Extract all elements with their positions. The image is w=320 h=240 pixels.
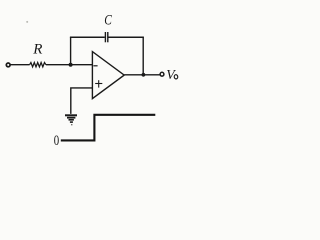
node output junction dot [142, 73, 146, 77]
resistor R1 [30, 63, 46, 67]
wire feedback right vertical [142, 37, 144, 75]
op-amp U1 [92, 52, 124, 99]
op-amp plus sign [95, 83, 102, 85]
wire noninverting input [71, 88, 93, 114]
svg-text:0: 0 [54, 132, 59, 148]
capacitor C [104, 32, 106, 42]
wire feedback top right [109, 36, 144, 38]
input terminal [6, 63, 10, 67]
svg-text:C: C [104, 13, 112, 29]
ground [65, 114, 77, 116]
op-amp minus sign [93, 65, 97, 67]
node A junction dot [69, 63, 73, 67]
wire feedback left vertical [70, 37, 72, 64]
svg-text:R: R [32, 42, 42, 58]
wire op-amp output [124, 74, 159, 76]
output terminal [160, 72, 164, 76]
wire resistor to op-amp inverting input [46, 64, 93, 66]
step waveform wire [61, 115, 156, 141]
wire input to resistor [10, 64, 29, 66]
label 0 (step input level) [54, 132, 59, 148]
wire feedback top left [70, 36, 105, 38]
speck [26, 21, 28, 23]
